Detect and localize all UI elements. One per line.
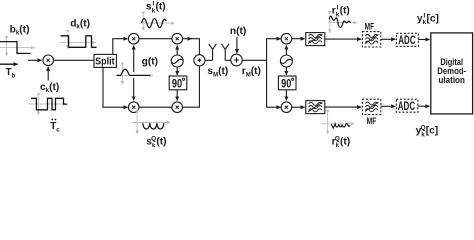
wire mixer M2 to mixer M4	[139, 38, 172, 40]
svg-text:Tc: Tc	[50, 121, 60, 133]
wire summer S1 to TX antenna	[205, 59, 213, 61]
mixer M6 (RX I)	[281, 33, 292, 44]
wire 90deg B1 down into mixer M5	[176, 90, 178, 101]
wire mixer M3 to mixer M5	[139, 106, 172, 108]
svg-text:Tb: Tb	[6, 67, 16, 79]
wire n(t) into adder S2	[236, 37, 238, 53]
wire mixer M5 to summer S1	[183, 66, 200, 107]
block Split	[94, 54, 116, 67]
block 90deg B2	[278, 76, 296, 90]
svg-text:g(t): g(t)	[142, 56, 158, 67]
waveform sketch g(t) axes	[116, 66, 154, 85]
svg-text:Split: Split	[95, 56, 115, 67]
node RX junction vertical	[266, 39, 268, 108]
wire mixer M4 to summer S1	[183, 38, 192, 40]
wire g(t) up into mixer M2	[133, 45, 135, 72]
waveform sketch r_k^I(t) axes	[328, 15, 357, 34]
svg-text:ck(t): ck(t)	[40, 82, 59, 94]
TX antenna	[209, 44, 217, 61]
block MF1 (matched filter, dashed)	[362, 32, 380, 47]
wire filter F2 to MF2	[325, 106, 361, 108]
mixer M1 (b_k x c_k)	[43, 55, 54, 66]
wire ADC2 to demodulator	[418, 105, 430, 107]
block ADC2 (dashed)	[396, 99, 418, 113]
oscillator OSC1	[171, 55, 183, 67]
filter F1 (lowpass)	[306, 33, 325, 46]
svg-text:90: 90	[281, 76, 291, 90]
wire g(t) down into mixer M3	[133, 78, 135, 101]
waveform sketch d_k(t) axes	[60, 34, 96, 49]
wire filter F1 to MF1	[325, 38, 361, 40]
wire junction to mixer M6	[266, 38, 281, 40]
block Digital Demodulation	[431, 33, 473, 114]
svg-text:90: 90	[172, 76, 182, 90]
wire OSC2 up into mixer M6	[285, 45, 287, 54]
block 90deg B1	[169, 76, 187, 90]
svg-text:rM(t): rM(t)	[242, 66, 261, 78]
mixer M2 (I pulse shaping)	[128, 33, 139, 44]
mixer M7 (RX Q)	[281, 102, 292, 113]
svg-text:ykI[c]: ykI[c]	[417, 12, 439, 26]
wire 90deg B2 down into mixer M7	[285, 90, 287, 101]
wire OSC2 down into 90deg box B2	[285, 67, 287, 75]
svg-text:ADC: ADC	[398, 33, 415, 47]
summer S1	[194, 55, 205, 66]
adder S2 (noise)	[231, 54, 243, 66]
wire Split to mixer M3 (Q branch)	[103, 67, 122, 107]
wire MF2 to ADC2	[381, 105, 396, 107]
mixer M3 (Q pulse shaping)	[128, 102, 139, 113]
wire Split to mixer M2 (I branch)	[113, 39, 122, 55]
svg-text:dk(t): dk(t)	[70, 19, 90, 31]
svg-text:ADC: ADC	[398, 99, 415, 113]
wire OSC1 up into mixer M4	[176, 45, 178, 54]
svg-text:bk(t): bk(t)	[10, 24, 30, 36]
wire adder S2 to RX junction	[242, 59, 266, 61]
waveform sketch b_k(t) axes	[0, 40, 35, 57]
block ADC1 (dashed)	[396, 33, 418, 47]
svg-text:rkQ(t): rkQ(t)	[332, 135, 351, 147]
svg-text:n(t): n(t)	[230, 26, 246, 37]
waveform sketch r_k^Q(t) noisy trace	[331, 124, 350, 128]
waveform sketch b_k(t) trace	[0, 42, 31, 54]
svg-text:ulation: ulation	[439, 75, 465, 85]
waveform sketch s_k^Q(t) axes	[133, 113, 171, 134]
wire b_k into mixer M1	[28, 59, 42, 61]
wire mixer M1 to Split	[54, 59, 95, 61]
block MF2 (matched filter, dashed)	[362, 99, 380, 114]
RX antenna	[221, 44, 229, 61]
svg-text:ykQ[c]: ykQ[c]	[416, 125, 439, 139]
wire RX antenna to adder S2	[225, 59, 230, 61]
wire OSC1 down into 90deg box B1	[176, 67, 178, 75]
waveform sketch c_k(t) axes	[29, 97, 67, 116]
waveform sketch r_k^I(t) noisy trace	[329, 16, 351, 27]
wire junction to mixer M7	[266, 106, 281, 108]
wire mixer M6 to filter F1	[292, 38, 305, 40]
svg-text:rkI(t): rkI(t)	[332, 5, 350, 19]
svg-text:MF: MF	[365, 22, 375, 33]
waveform sketch c_k(t) trace	[31, 98, 67, 110]
waveform sketch d_k(t) trace	[61, 36, 97, 48]
svg-text:skQ(t): skQ(t)	[146, 135, 166, 147]
wire c_k into mixer M1	[47, 67, 49, 81]
mixer M5 (Q carrier)	[172, 102, 183, 113]
waveform sketch g(t) pulse trace	[117, 69, 150, 75]
wire ADC1 to demodulator	[418, 39, 429, 41]
svg-text:sM(t): sM(t)	[207, 66, 228, 78]
mixer M4 (I carrier)	[172, 33, 183, 44]
wire mixer M7 to filter F2	[292, 106, 305, 108]
waveform sketch s_k^Q(t) trace (rectified arcs)	[143, 123, 164, 129]
svg-text:MF: MF	[367, 116, 377, 127]
waveform sketch r_k^Q(t) axes	[321, 114, 354, 135]
svg-text:skI(t): skI(t)	[146, 1, 166, 15]
oscillator OSC2	[280, 55, 292, 67]
label T_c with dots	[50, 119, 60, 134]
wire MF1 to ADC1	[381, 38, 396, 40]
Tb duration arrow	[0, 63, 18, 65]
filter F2 (lowpass)	[306, 101, 325, 114]
waveform sketch s_k^I(t) trace	[142, 19, 167, 28]
waveform sketch s_k^I(t) axes	[139, 15, 174, 31]
